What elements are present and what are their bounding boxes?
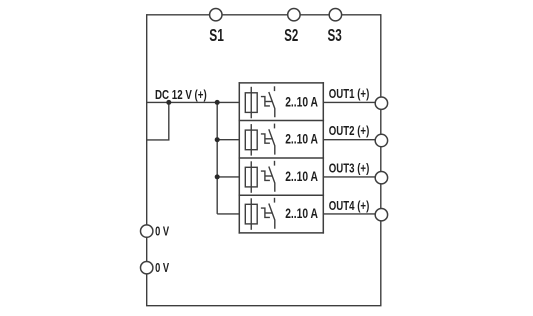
wire branch channel 2 bbox=[217, 139, 239, 141]
svg-text:2..10 A: 2..10 A bbox=[285, 131, 318, 147]
wire left rail (0 V) bbox=[146, 14, 148, 306]
terminal OUT4 bbox=[375, 209, 387, 221]
svg-text:2..10 A: 2..10 A bbox=[285, 168, 318, 184]
wire DC 12 V (+) feed bbox=[147, 101, 240, 103]
wire input loop horizontal bbox=[147, 139, 170, 141]
svg-text:OUT1 (+): OUT1 (+) bbox=[329, 86, 370, 101]
svg-text:2..10 A: 2..10 A bbox=[285, 205, 318, 221]
breaker switch contact Q4 bbox=[261, 198, 275, 229]
box border 2-3 bbox=[239, 157, 324, 159]
wire output channel 4 bbox=[323, 213, 381, 215]
breaker switch contact Q3 bbox=[261, 161, 275, 192]
breaker switch contact Q1 bbox=[261, 86, 275, 117]
terminal 0V lower bbox=[141, 262, 153, 274]
wire output channel 1 bbox=[323, 101, 381, 103]
circuit breaker channel CB2 bbox=[245, 124, 318, 156]
fuse F2 bbox=[245, 124, 257, 156]
svg-text:0 V: 0 V bbox=[155, 223, 169, 238]
terminal 0V upper bbox=[141, 225, 153, 237]
box right side bbox=[322, 82, 324, 234]
wire branch channel 4 bbox=[217, 213, 239, 215]
circuit breaker channel CB1 bbox=[245, 86, 318, 118]
svg-text:S3: S3 bbox=[328, 25, 342, 45]
box left side bbox=[238, 82, 240, 234]
box border 1-2 bbox=[239, 120, 324, 122]
svg-text:S1: S1 bbox=[209, 25, 224, 45]
wire output channel 2 bbox=[323, 139, 381, 141]
node junction dot DC input bbox=[166, 100, 171, 105]
wire branch channel 3 bbox=[217, 176, 239, 178]
wire bottom return bbox=[146, 305, 382, 307]
box border top bbox=[239, 82, 324, 84]
terminal OUT1 bbox=[375, 97, 387, 109]
channel enclosure grid bbox=[239, 82, 324, 234]
wire distribution rail bbox=[216, 102, 218, 213]
fuse F3 bbox=[245, 161, 257, 193]
terminal OUT2 bbox=[375, 134, 387, 146]
circuit breaker channel CB4 bbox=[245, 198, 318, 230]
terminal S2 bbox=[288, 9, 300, 21]
wire top bus (S1-S3) bbox=[147, 14, 381, 16]
terminal S3 bbox=[329, 9, 341, 21]
svg-text:2..10 A: 2..10 A bbox=[285, 93, 318, 109]
breaker switch contact Q2 bbox=[261, 124, 275, 155]
svg-text:OUT3 (+): OUT3 (+) bbox=[329, 160, 370, 175]
svg-text:OUT4 (+): OUT4 (+) bbox=[329, 198, 370, 213]
node junction dot distribution top bbox=[215, 100, 220, 105]
terminal OUT3 bbox=[375, 172, 387, 184]
svg-text:0 V: 0 V bbox=[155, 260, 169, 275]
terminal S1 bbox=[210, 9, 222, 21]
fuse F1 bbox=[245, 87, 257, 119]
fuse F4 bbox=[245, 198, 257, 230]
node junction dot channel 2 bbox=[215, 137, 220, 142]
circuit breaker channel CB3 bbox=[245, 161, 318, 193]
svg-text:S2: S2 bbox=[284, 25, 298, 45]
box border bottom bbox=[239, 232, 324, 234]
box border 3-4 bbox=[239, 194, 324, 196]
svg-text:DC 12 V (+): DC 12 V (+) bbox=[155, 87, 207, 102]
svg-text:OUT2 (+): OUT2 (+) bbox=[329, 123, 370, 138]
wire input loop vertical bbox=[168, 102, 170, 139]
wire right rail (OUT bus) bbox=[380, 14, 382, 306]
node junction dot channel 3 bbox=[215, 174, 220, 179]
wire output channel 3 bbox=[323, 176, 381, 178]
